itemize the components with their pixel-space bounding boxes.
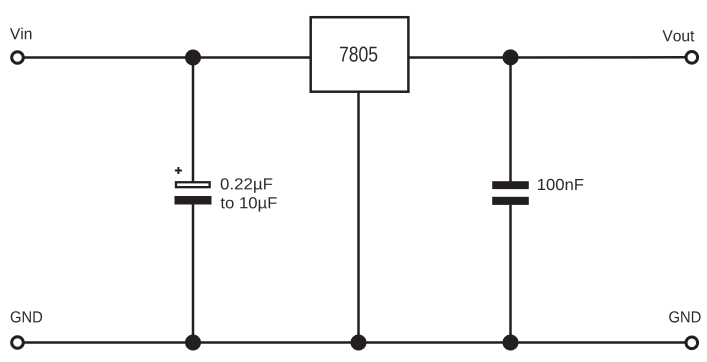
value label 100nF	[538, 179, 583, 190]
wire ground rail	[25, 341, 686, 344]
regulator U1 7805 body	[311, 17, 409, 92]
terminal GND right	[686, 337, 698, 349]
terminal Vout	[686, 52, 698, 64]
node label GND left	[11, 311, 42, 322]
terminal Vin	[12, 52, 24, 64]
junction node ground right	[503, 335, 519, 351]
wire Vin terminal to input junction	[25, 56, 194, 59]
junction node ground left	[185, 335, 201, 351]
terminal GND left	[12, 337, 24, 349]
wire U1 pin 3 to output junction	[410, 56, 511, 59]
wire output junction down to C2	[509, 58, 512, 183]
capacitor C1 top plate (positive, hollow)	[176, 182, 210, 187]
value label 7805	[340, 47, 377, 62]
wire output junction to Vout terminal	[511, 56, 686, 59]
wire U1 pin 2 (GND) down to ground rail	[357, 92, 360, 343]
wire C2 to ground rail	[509, 205, 512, 343]
junction node ground middle	[351, 335, 367, 351]
capacitor C1 polarity plus sign	[175, 170, 182, 172]
value label 0.22uF to 10uF	[221, 178, 273, 193]
wire input junction down to C1	[192, 58, 195, 182]
capacitor C2 top plate	[492, 181, 529, 189]
capacitor C1 bottom plate (solid)	[175, 196, 212, 205]
capacitor C2 bottom plate	[492, 197, 529, 205]
junction node output (top right)	[503, 49, 519, 65]
wire C1 to ground rail	[192, 205, 195, 343]
node label Vout	[663, 30, 695, 41]
junction node input (top left)	[185, 50, 201, 66]
node label Vin	[10, 28, 31, 40]
node label GND right	[669, 311, 700, 322]
wire input junction to U1 pin 1	[193, 56, 310, 59]
